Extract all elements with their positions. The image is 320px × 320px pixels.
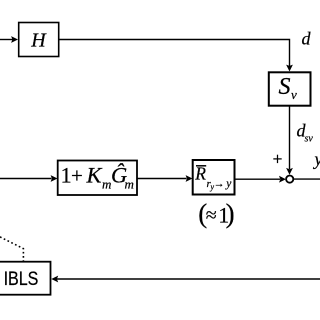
block 1+KmGm [58, 161, 137, 196]
svg-text:K: K [86, 162, 103, 187]
wire: input into H [0, 36, 18, 43]
plus sign at summing junction [273, 155, 281, 163]
svg-text:≈: ≈ [206, 205, 217, 227]
wire: feedback from right edge into IBLS [51, 276, 320, 283]
svg-text:y: y [225, 178, 232, 190]
wire: Rbar to summing junction [235, 176, 286, 183]
block Sv [269, 72, 311, 105]
svg-text:S: S [279, 74, 291, 100]
svg-text:v: v [291, 87, 297, 102]
wire: input into 1+KmGm block [0, 175, 58, 182]
wire: summing junction to output y [294, 178, 320, 180]
block IBLS [0, 262, 51, 295]
summing junction circle [286, 176, 293, 183]
svg-text:+: + [71, 163, 83, 187]
block Rbar_{ry->y} [193, 160, 235, 195]
wire: Sv output down into summing junction [286, 106, 293, 175]
svg-text:y: y [313, 149, 320, 169]
node label d_sv [297, 121, 314, 145]
svg-text:H: H [30, 30, 47, 52]
svg-text:): ) [226, 198, 235, 228]
svg-text:IBLS: IBLS [4, 269, 39, 290]
svg-text:m: m [125, 176, 134, 191]
svg-text:d: d [302, 29, 312, 49]
svg-text:m: m [102, 176, 111, 191]
wire: H output to Sv (disturbance path d) [59, 40, 293, 72]
svg-text:→: → [214, 178, 225, 190]
dotted wire into IBLS (diagonal then vertical) [0, 237, 23, 262]
label (approx 1) under Rbar [198, 198, 234, 228]
wire: 1+KmGm to Rbar [137, 175, 193, 182]
block H [19, 23, 59, 57]
svg-text:sv: sv [305, 134, 314, 145]
